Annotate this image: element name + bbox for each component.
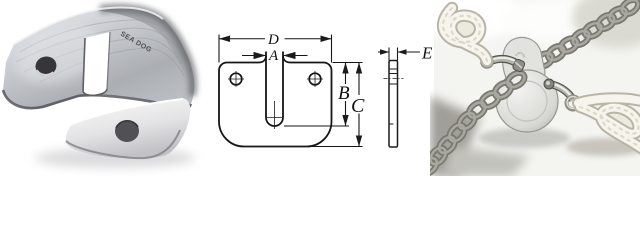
slot: [83, 32, 110, 95]
A dimension lines: [242, 55, 308, 57]
side view hidden ticks: [389, 69, 398, 124]
hole upper: [34, 55, 58, 78]
right rope loop body: [594, 101, 640, 137]
brushed dark band along top-right: [95, 8, 194, 97]
slot centerline: [267, 101, 282, 129]
lower face top edge: [72, 99, 183, 124]
back plate tab: [503, 37, 545, 88]
right rope shadow: [566, 138, 640, 156]
E dimension arrows: [378, 51, 420, 53]
top edge highlight: [14, 7, 163, 44]
hole right with crosshair: [309, 73, 321, 85]
plate shadow: [35, 148, 195, 168]
left rope knot body: [438, 10, 483, 49]
D extension lines: [218, 35, 220, 63]
bottom extension to C: [310, 146, 363, 148]
side view hole centerline: [384, 78, 404, 80]
svg-text:C: C: [351, 95, 365, 117]
lower edge dark band: [3, 90, 191, 109]
disc shadow: [478, 128, 570, 148]
slot-bottom extension to B: [284, 125, 349, 127]
right shackle: [550, 84, 573, 100]
top extension to C: [333, 62, 363, 64]
plate outline front view: [219, 52, 332, 147]
left shackle: [489, 59, 519, 65]
svg-text:E: E: [421, 44, 433, 63]
C line: [358, 63, 360, 147]
hole left with crosshair: [230, 73, 242, 85]
disc: [496, 70, 558, 132]
E extension lines: [389, 48, 398, 61]
chain over disc: [418, 70, 527, 177]
svg-text:A: A: [268, 48, 279, 64]
chain links: [521, 0, 640, 78]
left rope: [443, 8, 487, 61]
lower face bottom edge: [66, 130, 180, 158]
svg-text:D: D: [267, 32, 279, 48]
slot walls: [266, 56, 283, 126]
right rope: [578, 98, 640, 150]
plate top face: [3, 7, 194, 109]
photo background: [434, 0, 640, 176]
bright sheen center-left: [9, 16, 111, 93]
bottom-left shadow wedge: [430, 96, 480, 176]
svg-text:B: B: [338, 83, 350, 104]
hole lower: [115, 120, 139, 142]
plate lower face: [66, 98, 191, 158]
arrowheads front view: [219, 36, 362, 147]
B line: [345, 63, 347, 127]
brushed streaks: [16, 20, 184, 82]
D dimension line: [219, 38, 332, 40]
side view rect: [389, 61, 398, 148]
